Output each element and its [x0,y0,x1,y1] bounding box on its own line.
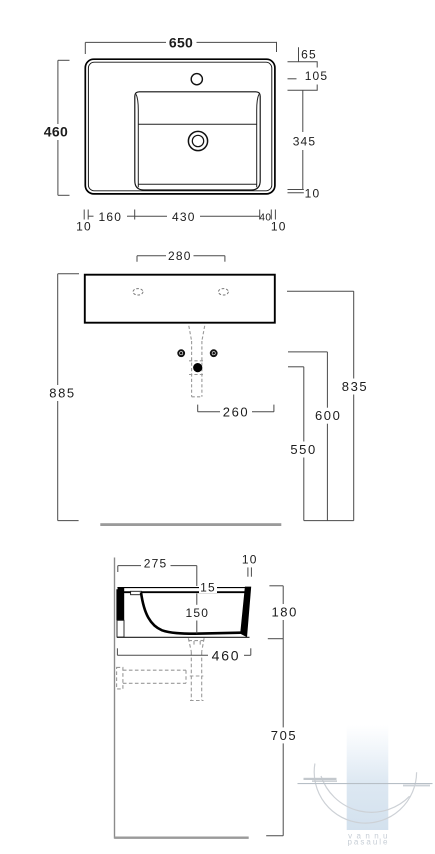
watermark water line [298,783,433,784]
dim 275 [118,566,197,586]
drain valve (solid) [193,363,202,372]
bottom line [117,636,250,638]
bowl left wall line [136,94,138,187]
svg-text:10: 10 [271,220,287,234]
tick top edge [288,62,318,68]
floor line (front view) [100,523,281,526]
dim 10 bottom right [288,189,304,191]
under-rim line [124,591,246,593]
svg-text:10: 10 [242,553,258,567]
basin outer rim rect [85,59,275,194]
dim 65 right [298,47,300,62]
wall line [114,558,115,839]
front wall solid (cut) [240,587,251,638]
dim 460 left [58,60,70,195]
drain flange dashed (side) [188,638,204,700]
back wall lower box [117,620,124,637]
watermark dash left [304,778,337,780]
svg-text:460: 460 [44,124,68,140]
svg-text:550: 550 [290,442,317,457]
watermark bar [347,725,389,830]
svg-text:105: 105 [305,69,329,83]
svg-text:705: 705 [271,728,298,743]
p-trap to wall dashed [117,667,186,689]
bowl right wall line [257,94,259,187]
dim 15 leader [196,594,198,597]
svg-text:885: 885 [49,385,76,400]
dim 150 [196,596,198,605]
left fixing bolt [178,350,184,356]
bottom dim chain [84,210,275,220]
bowl rim outline [135,92,260,190]
watermark bowl arc inner [321,776,410,812]
svg-text:65: 65 [301,48,317,62]
tick faucet center [288,78,297,80]
mounting hole right (dashed) [218,289,228,295]
watermark bowl arc outer [314,764,416,824]
svg-text:835: 835 [342,379,369,394]
drain inner ring [192,135,203,146]
svg-text:345: 345 [293,135,317,149]
svg-text:150: 150 [185,606,209,620]
watermark dash right [403,785,430,787]
bowl floor line [138,183,256,185]
svg-text:15: 15 [200,581,216,595]
faucet hole [191,74,202,85]
svg-text:180: 180 [271,605,298,620]
drain outer ring [188,131,207,150]
front face rect [85,275,275,323]
svg-text:275: 275 [144,557,168,571]
svg-text:460: 460 [212,647,241,663]
svg-text:260: 260 [223,405,250,420]
top surface line [117,587,250,589]
basin interior curve [141,592,241,633]
svg-text:160: 160 [98,210,122,224]
dim 345 right [302,90,304,132]
drain pipe dashed (front) [189,326,205,397]
svg-text:280: 280 [168,249,192,263]
svg-text:600: 600 [315,408,342,423]
dim 280 [137,256,225,262]
overflow notch [131,591,142,594]
dim 460 (side) [117,648,250,655]
bowl shelf line [138,123,256,125]
dim 260 [198,405,274,412]
dim 650 top [85,42,276,54]
mounting hole left (dashed) [133,289,143,295]
floor line (side view) [114,837,248,839]
svg-text:430: 430 [172,210,196,224]
svg-text:650: 650 [169,34,193,50]
svg-text:10: 10 [76,220,92,234]
drain tail pipe dashed [190,652,192,701]
dim 550 [288,367,304,521]
dim 180 / 705 shared line [266,586,283,836]
dim 600 [288,352,327,521]
back wall solid (cut) [116,587,124,620]
svg-text:pasaule: pasaule [347,838,389,847]
svg-text:10: 10 [305,187,321,201]
floor connector right [304,520,354,522]
basin inner offset line [88,62,271,191]
dim 835 [287,291,354,520]
svg-text:40: 40 [259,213,271,224]
dim 885 [58,274,79,521]
right fixing bolt [211,350,217,356]
